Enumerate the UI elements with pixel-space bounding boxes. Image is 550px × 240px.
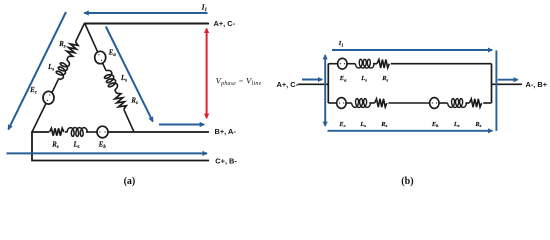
current arrow (b, right lead, pointing right): [498, 79, 518, 81]
svg-text:Ea: Ea: [108, 49, 117, 58]
svg-text:(b): (b): [401, 176, 413, 187]
inductor Ls (b, bottom branch right): [448, 99, 467, 108]
resistor Rs (b, bottom branch left): [375, 99, 387, 107]
svg-text:Ls: Ls: [359, 121, 366, 128]
current arrow (b, left vertical double-headed): [324, 55, 326, 126]
source Eb (a, bottom leg, circle): [97, 126, 108, 138]
svg-text:Eb: Eb: [431, 121, 439, 128]
svg-text:B+, A-: B+, A-: [215, 127, 237, 136]
svg-text:Ls: Ls: [47, 64, 54, 73]
resistor Rs (b, top branch): [377, 60, 389, 68]
wire: bottom leg between resistor and inductor: [65, 131, 68, 133]
source Ea (b, top branch): [338, 58, 347, 69]
current arrow (a, left outer diagonal, pointing down-left): [8, 12, 66, 130]
wire: bottom leg between inductor and source: [86, 131, 97, 133]
wire: top branch lead-in (b): [328, 63, 337, 65]
wire: top branch to right rail (b): [391, 63, 492, 65]
svg-text:Ea: Ea: [339, 75, 347, 82]
wire: bottom branch to right rail (b): [483, 102, 491, 104]
wire: top line from apex to A+,C- terminal: [84, 23, 209, 25]
wire: top branch between Ea and Ls (b): [347, 63, 355, 65]
svg-text:Ls: Ls: [453, 121, 460, 128]
wire: left lead (b): [298, 83, 329, 85]
svg-text:(a): (a): [124, 176, 136, 187]
svg-text:Ls: Ls: [120, 75, 127, 84]
wire: left leg upper segment (apex to resistor): [76, 23, 85, 42]
current arrow (b, left lead, pointing right): [302, 79, 322, 81]
current arrow I1 (b, top, pointing right): [332, 49, 492, 51]
svg-text:Ls: Ls: [73, 142, 80, 151]
wire: top branch between Ls and Rs (b): [373, 63, 377, 65]
wire: left leg lower segment (source to bottom-left vertex): [32, 103, 46, 132]
wire: left leg between resistor and inductor: [67, 56, 69, 60]
wire: bottom branch between Ls and Rs (b): [369, 102, 374, 104]
svg-text:Rs: Rs: [474, 121, 481, 128]
inductor Ls (b, bottom branch left): [352, 99, 371, 108]
wire: C+,B- line from bottom-left vertex: [32, 131, 209, 160]
svg-text:A+, C-: A+, C-: [214, 19, 236, 28]
wire: right leg lower segment (resistor to bottom-right vertex): [124, 109, 134, 132]
current arrow I1 (a, top, pointing left): [84, 12, 207, 14]
current arrow (a, right inner diagonal, pointing down-right): [106, 27, 153, 122]
wire: right leg between inductor and resistor: [115, 90, 117, 93]
svg-text:Ec: Ec: [29, 87, 38, 96]
svg-text:I1: I1: [201, 3, 207, 13]
source Ec (a, left leg, circle): [43, 91, 54, 104]
svg-text:Rs: Rs: [380, 121, 387, 128]
wire: bottom branch between Ls and Rs right (b): [465, 102, 469, 104]
resistor Rs (a, bottom leg): [50, 128, 64, 135]
svg-text:I1: I1: [338, 40, 344, 48]
inductor Ls (a, right leg): [102, 69, 119, 92]
svg-text:Rs: Rs: [58, 41, 66, 50]
resistor Rs (b, bottom branch right): [469, 99, 481, 107]
wire: right lead (b): [492, 83, 523, 85]
svg-text:Rs: Rs: [130, 97, 138, 106]
inductor Ls (a, left leg): [54, 58, 71, 81]
source Eb (b, bottom branch): [430, 98, 439, 109]
current arrow (b, bottom, pointing right): [328, 130, 493, 132]
inductor Ls (b, top branch): [355, 59, 374, 68]
wire: bottom leg right segment to B+,A- terminal: [108, 131, 209, 133]
wire: bottom branch between Eb and Ls (b): [439, 102, 448, 104]
wire (b, blue right vertical): [495, 50, 497, 130]
svg-text:Vphase = Vline: Vphase = Vline: [216, 75, 262, 87]
current arrow (a, above B+,A- line, pointing right): [159, 124, 204, 126]
current arrow (a, above C+,B- line, pointing right): [7, 152, 208, 154]
wire: bottom branch lead-in (b): [328, 102, 336, 104]
svg-text:C+, B-: C+, B-: [215, 157, 237, 166]
source Ec (b, bottom branch): [337, 98, 346, 109]
source Ea (a, right leg, circle): [95, 51, 106, 63]
resistor Rs (a, left leg): [65, 40, 79, 58]
resistor Rs (a, right leg): [113, 92, 127, 111]
wire: left rail (b): [327, 64, 329, 103]
wire: right leg between source and inductor: [103, 63, 107, 71]
svg-text:A+, C-: A+, C-: [277, 80, 299, 89]
inductor Ls (a, bottom leg): [67, 128, 88, 137]
svg-text:A-, B+: A-, B+: [526, 80, 548, 89]
wire: right rail (b): [491, 64, 493, 103]
wire: right leg upper segment (apex to source Ea): [85, 23, 98, 52]
svg-text:Eb: Eb: [98, 142, 107, 151]
svg-text:Rs: Rs: [381, 75, 388, 82]
wire: bottom branch between Ec and Ls (b): [346, 102, 352, 104]
wire: left leg between inductor and source: [52, 80, 58, 93]
wire: bottom branch middle (b): [388, 102, 429, 104]
svg-text:Ec: Ec: [338, 121, 345, 128]
svg-text:Ls: Ls: [360, 75, 367, 82]
svg-text:Rs: Rs: [51, 142, 59, 151]
wire: bottom leg left segment + B+,A- line: [32, 131, 49, 133]
voltage arrow Vphase=Vline (red, double headed): [206, 29, 208, 119]
